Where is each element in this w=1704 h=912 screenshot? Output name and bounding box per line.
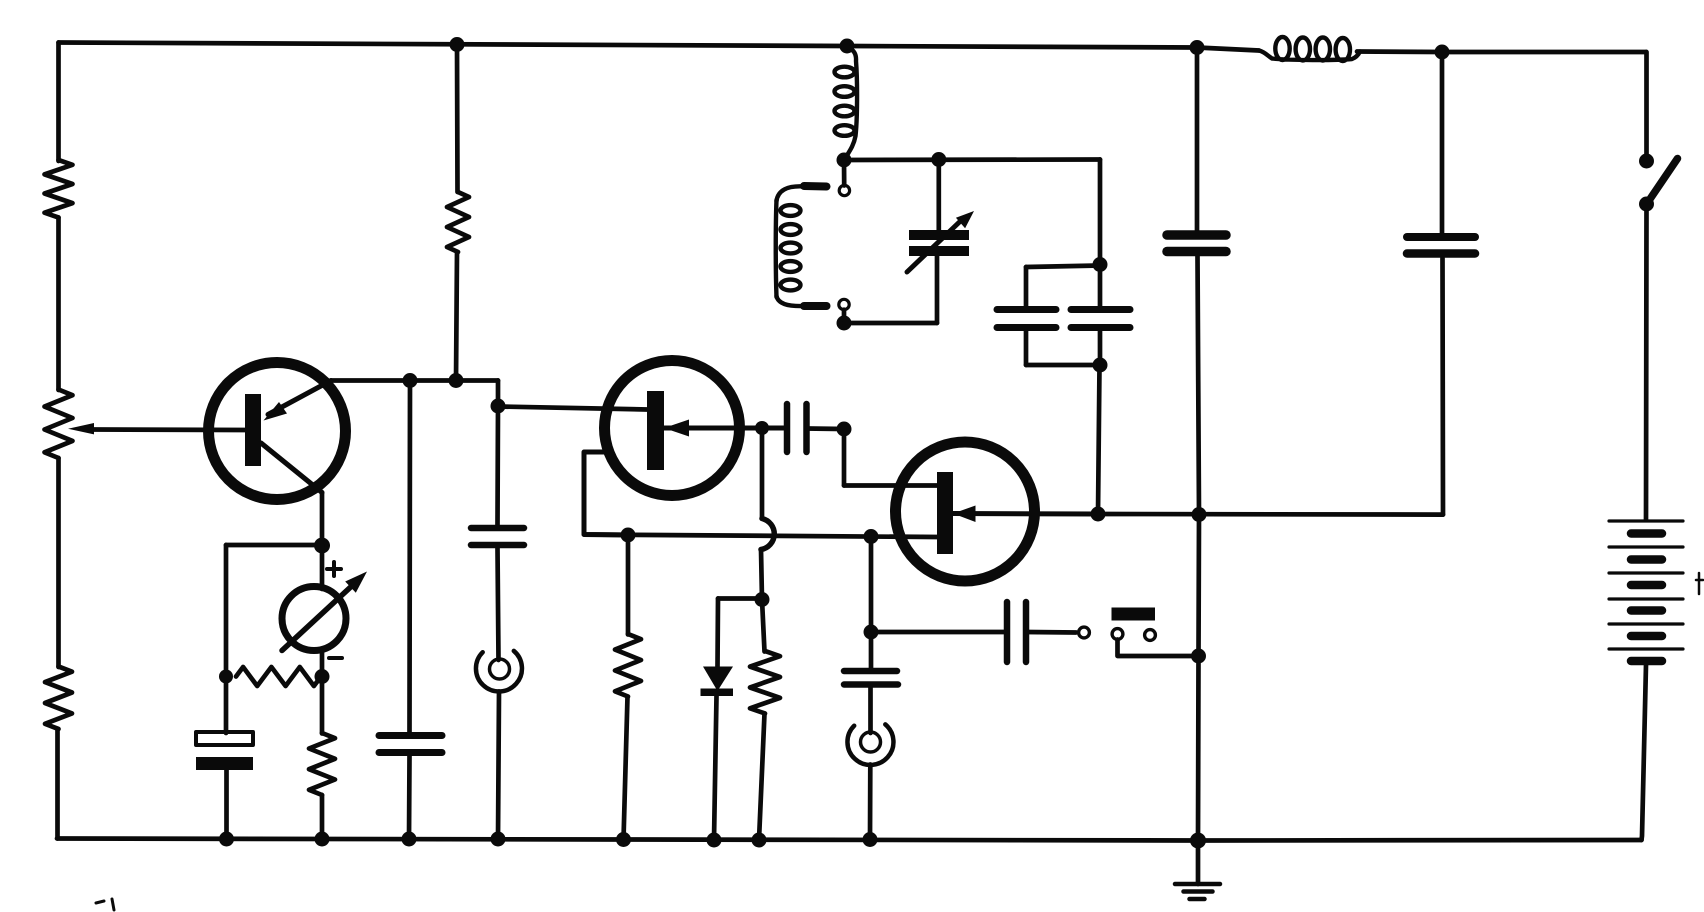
transistor Q2 emitter lead [664,426,784,431]
wire to resistor R6 [320,677,325,734]
antenna coil L2 bottom lead [777,296,805,306]
transistor Q1 collector lead [261,443,322,493]
wire C4 to tank bottom line [807,426,845,431]
wire top supply rail left section [59,43,1260,51]
node Q3 lower-left junction [864,529,879,544]
wire R8 to ground rail [759,714,765,841]
resistor R3 [45,667,72,730]
variable capacitor CV arrowhead [956,211,974,228]
wire ground stem [1196,841,1201,885]
node D1 ground rail [707,833,722,848]
wire tank top line [844,157,1100,162]
inductor L3 RF choke [1259,37,1360,61]
wire Q1 emitter bus [331,378,498,383]
capacitor C4 right plate [803,404,810,452]
key K1 right contact [1145,630,1156,641]
transistor Q3 envelope [896,442,1035,581]
meter M1 plus sign [327,562,341,576]
node ground rail center [1190,833,1206,849]
resistor R4 [447,192,469,252]
capacitor C9 bottom plate [1167,247,1226,257]
node R7 top junction [621,528,636,543]
wire tank line to corner [1098,160,1103,265]
antenna coil L2 bottom pin [804,302,827,310]
wire bottom ground rail [57,839,1642,841]
wire crossover hop [761,519,774,550]
inductor L1 plate choke [835,47,858,161]
wire C9 top lead [1195,48,1200,232]
wire diode top link [718,596,762,601]
wire left drop to meter resistor node [224,545,229,733]
wire socket to tank bottom node [842,310,847,324]
jack J1 outer sleeve [476,651,522,692]
key K1 knob bar [1112,608,1156,621]
node C1 ground rail [219,832,234,847]
node top rail L1 tap [840,39,855,54]
capacitor C1 electrolytic positive plate [196,732,253,745]
node C2 ground rail [402,832,417,847]
capacitor C1 electrolytic negative plate [196,757,253,770]
key K1 left contact [1112,629,1123,640]
antenna coil L2 top lead [777,186,805,201]
wire C7 to key terminal [1026,630,1076,635]
wire C10 top lead [1440,52,1445,233]
wire L1 node to coil socket [842,160,847,186]
wire C3 to jack J1 [498,548,499,660]
wire bypass drop mid [1196,515,1201,657]
node R6 ground rail [315,832,330,847]
wire C1 to ground rail [224,770,229,839]
resistor R1 [45,160,73,218]
capacitor C3 bottom plate [471,542,524,549]
wire Q3 upper-left lead [844,483,937,488]
wire R7 to ground rail [624,697,628,840]
wire Q2 collector bus [584,535,937,538]
transistor Q1 envelope [209,363,346,500]
capacitor C10 bottom plate [1407,249,1475,258]
node tank bottom junction [837,316,852,331]
node tank line C4 junction [837,422,852,437]
transistor Q2 collector lead [584,452,628,535]
wire C5 bottom stub [1024,331,1029,365]
wire crossover drop lower [761,550,762,600]
wire C10 to output line [1440,258,1445,515]
node padder top junction [1093,257,1108,272]
ink speck bottom left [96,899,114,910]
wire C6 bottom stub [1098,331,1103,365]
wire crossover drop upper [760,428,765,519]
wire Q1 base to potentiometer wiper [92,427,245,432]
potentiometer R2 wiper arrow [68,423,94,434]
wire C6 top stub [1098,265,1103,307]
resistor R5 meter shunt [236,667,321,686]
jack J1 inner tip [490,659,510,679]
capacitor C4 left plate [784,404,791,452]
capacitor C6 bottom plate [1071,324,1130,331]
node detector junction [755,592,770,607]
jack J2 inner tip [861,732,881,752]
transistor Q3 base bar [937,472,953,554]
wire C5 top stub [1024,267,1029,306]
coil socket terminal upper [839,185,849,195]
ink speck right edge [1696,573,1703,594]
node meter shunt left [219,670,233,684]
wire meter top lead [320,546,325,590]
transistor Q3 right lead [953,511,1098,517]
node R8 ground rail [752,833,767,848]
capacitor C2 top plate [379,732,442,739]
meter M1 body [282,587,346,651]
node top rail R4 tap [450,37,465,52]
wire left rail top segment [56,43,61,162]
potentiometer R2 element [45,390,73,459]
node L1 bottom junction [837,153,852,168]
wire C3 top lead [495,406,500,525]
diode D1 triangle [703,667,733,692]
wire C9 to output line [1198,256,1200,515]
transistor Q2 emitter arrow [664,420,689,437]
variable capacitor CV bottom plate [909,246,969,256]
meter M1 needle [282,583,355,651]
meter M1 needle arrowhead [345,572,367,593]
variable capacitor CV arrow shaft [907,222,960,273]
capacitor C9 top plate [1167,230,1226,240]
node variable capacitor top tap [931,152,946,167]
transistor Q2 base bar [647,391,664,470]
coil socket terminal lower [839,299,849,309]
node top rail C10 tap [1435,45,1450,60]
wire node to left corner [226,543,322,548]
resistor R7 [615,634,641,697]
transistor Q1 base bar [245,394,261,466]
wire bypass drop lower [1196,656,1201,841]
wire jack J2 to ground rail [868,765,873,840]
wire left rail lower segment [56,458,61,667]
capacitor C8 bottom plate [844,681,898,688]
wire right drop from top rail to switch [1644,52,1649,161]
node Q1 collector junction [314,538,330,554]
node keyline cap tap [864,625,879,640]
resistor R6 [309,733,335,795]
meter M1 minus sign [329,656,342,660]
wire switch to battery [1644,204,1649,520]
wire Q2 base lead [498,407,647,410]
wire left rail mid segment [56,218,61,391]
node switch lower contact [1639,197,1654,212]
capacitor C7 left plate [1004,602,1011,662]
resistor R8 [750,651,780,714]
antenna coil L2 top pin [804,182,827,191]
wire emitter bus corner down [496,381,501,407]
node Q2 emitter junction [755,421,769,435]
capacitor C5 bottom plate [997,324,1056,331]
node meter bottom junction [315,669,330,684]
wire diode upper lead [715,599,720,668]
wire R6 to ground rail [320,795,325,839]
wire meter bottom lead [320,650,325,678]
transistor Q2 envelope [605,361,740,496]
variable capacitor CV top plate [909,230,969,240]
wire Q3 output line [1098,512,1443,517]
capacitor C2 bottom plate [379,749,442,756]
wire key to bypass line [1118,640,1199,657]
capacitor C10 top plate [1407,233,1475,241]
node switch upper contact [1639,154,1654,169]
wire R8 upper lead [762,600,765,652]
wire padder top link [1026,266,1100,268]
wire battery to ground rail [1642,665,1647,840]
ground symbol [1175,884,1220,899]
wire R7 upper lead [626,535,631,635]
wire C2 top lead [407,381,412,733]
wire padder bottom link [1026,363,1100,368]
wire tank bottom stub [844,321,937,326]
capacitor C5 top plate [997,306,1056,313]
capacitor C6 top plate [1071,306,1130,313]
wire left rail bottom segment [55,729,60,839]
wire top supply rail right section [1357,49,1646,54]
capacitor C3 top plate [471,525,524,532]
transistor Q3 arrow [953,506,976,523]
wire Q1 collector down to node [320,493,325,547]
wire tank bottom to Q3 gate corner [842,429,847,486]
transistor Q1 emitter lead [268,381,331,415]
node Q2 base junction [491,399,506,414]
node Q3 output left [1091,507,1106,522]
wire C8 to jack J2 [868,688,873,734]
node R4 emitter bus [449,373,464,388]
transistor Q1 emitter arrow [264,402,288,421]
inductor L2 antenna coil [776,200,801,297]
wire diode to ground rail [714,696,717,840]
diode D1 cathode bar [701,689,734,697]
wire variable cap top lead [936,160,941,231]
wire R4 bottom lead [456,252,457,381]
wire variable cap bottom lead [935,256,940,323]
node top rail C9 tap [1190,40,1205,55]
wire C2 bottom lead [407,756,412,839]
capacitor C8 top plate [844,668,897,675]
wire keyline drop [869,537,874,669]
node padder bottom junction [1093,358,1108,373]
wire tank to Q3 source node [1098,365,1100,514]
node J2 ground rail [863,832,878,847]
node R7 ground rail [616,832,631,847]
battery B1 [1609,521,1683,661]
wire jack J1 to ground rail [498,692,499,840]
key terminal open circle [1079,627,1090,638]
node key bypass junction [1191,649,1206,664]
switch S1 blade [1648,159,1678,203]
jack J2 outer sleeve [847,724,893,765]
node Q3 output bypass [1192,507,1207,522]
node J1 ground rail [491,832,506,847]
wire R4 top lead [455,45,460,193]
capacitor C7 right plate [1023,602,1030,662]
node R4 emitter bus left [403,373,418,388]
wire key cap link [871,630,1004,635]
